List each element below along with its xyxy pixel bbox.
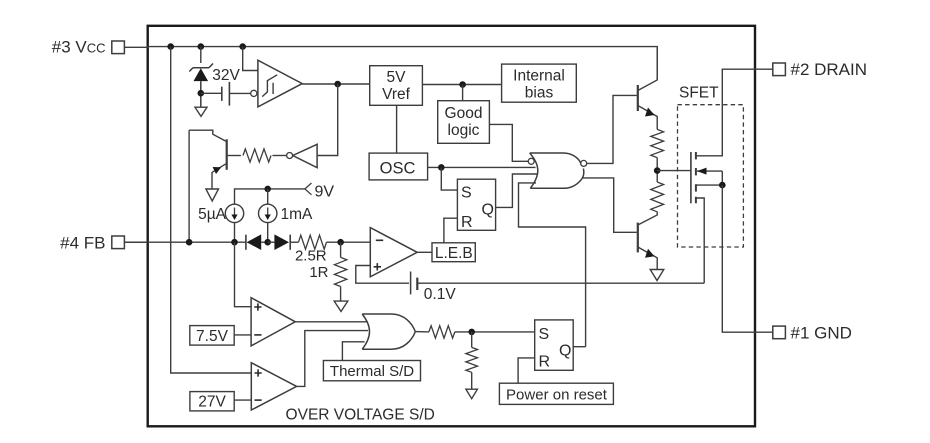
wire plus input to battery — [356, 266, 409, 284]
SFET sense stub — [696, 198, 704, 283]
wire latch1 R to LEB — [444, 218, 458, 243]
svg-text:bias: bias — [525, 85, 554, 102]
wire comparator to LEB — [417, 251, 432, 253]
svg-text:27V: 27V — [198, 394, 226, 411]
gate U8 OR body — [362, 314, 415, 349]
wire 27V to comp2 minus — [234, 399, 251, 401]
wire capacitor to schmitt bubble — [229, 92, 250, 94]
op-amp U7 comparator 27V — [251, 363, 296, 410]
resistor 2.5R — [290, 235, 326, 249]
wire VCC to schmitt upper input — [243, 47, 258, 71]
node VCC-zener tap — [198, 43, 205, 50]
schmitt trigger U1 triangle — [258, 60, 302, 107]
label Good logic — [445, 105, 483, 139]
schmitt inverting bubble — [251, 90, 257, 96]
latch U9 pin Q — [559, 343, 571, 360]
ground S-path resistor — [466, 389, 478, 399]
svg-text:Power on reset: Power on reset — [506, 386, 608, 403]
op-amp U6 comparator 7.5V — [251, 298, 295, 346]
svg-text:Vref: Vref — [382, 86, 411, 103]
transistor Q2 emitter with arrow — [638, 106, 657, 130]
pin #4 FB terminal — [112, 236, 125, 249]
wire comp2 out to OR gate — [297, 331, 368, 387]
svg-text:R: R — [461, 214, 473, 231]
label 1mA — [281, 206, 314, 223]
wire gate node to SFET gate — [657, 170, 690, 172]
wire NOR out to upper base — [587, 95, 637, 163]
node zener-cap junction — [198, 90, 205, 97]
label Power on reset — [506, 386, 608, 403]
label 5V Vref — [382, 69, 411, 103]
label 2.5R — [295, 248, 327, 265]
pin #3 VCC label — [52, 38, 106, 57]
current source I1 5uA — [225, 204, 243, 222]
svg-text:5V: 5V — [387, 69, 407, 86]
IC boundary box — [148, 26, 755, 427]
label 5uA — [198, 206, 227, 223]
transistor Q3 base bar — [637, 223, 639, 253]
transistor Q2 collector — [638, 47, 657, 91]
latch U9 pin R — [539, 354, 551, 371]
gate U5 output bubble — [581, 160, 587, 166]
wire FB line — [124, 241, 245, 243]
svg-text:Q: Q — [482, 202, 494, 219]
wire VCC rail — [148, 47, 658, 80]
wire VCC pin to border — [124, 46, 149, 48]
wire NOR low out to lower base — [583, 178, 637, 232]
node S-path — [468, 329, 475, 336]
block 5V Vref — [370, 66, 423, 106]
resistor 1R — [334, 242, 346, 286]
wire OR out to latch2 S — [415, 331, 429, 333]
latch U4 pin Q — [482, 202, 494, 219]
latch U9 SR box — [535, 320, 574, 370]
svg-text:5µA: 5µA — [198, 206, 227, 223]
wire latch1 Q to NOR — [496, 174, 538, 207]
diode D2 (pointing right) — [268, 234, 291, 250]
inverter U2 (left-pointing) — [293, 144, 317, 167]
label SFET — [679, 85, 719, 102]
battery 0.1V — [411, 272, 418, 295]
zener diode 32V — [189, 64, 213, 108]
resistor drive R2 — [651, 182, 664, 212]
latch U4 pin S — [461, 185, 472, 202]
node OSC output — [438, 164, 445, 171]
svg-text:Thermal S/D: Thermal S/D — [330, 363, 414, 380]
SFET dashed box — [678, 105, 744, 247]
svg-text:Q: Q — [559, 343, 571, 360]
label 7.5V — [196, 328, 229, 345]
wire resistor to Q1 base — [228, 155, 241, 157]
label 32V — [212, 67, 240, 84]
diode D1 (pointing left) — [246, 234, 268, 250]
svg-text:S: S — [539, 326, 550, 343]
SFET body diode arrow — [697, 168, 722, 186]
label Internal bias — [513, 68, 565, 102]
wire 2.5R to comparator — [327, 241, 371, 243]
wire latch2 Q feedback into NOR — [519, 183, 586, 347]
wire latch2 Q out — [573, 346, 585, 348]
schmitt hysteresis glyph — [262, 75, 277, 97]
current source I2 1mA — [259, 189, 277, 223]
node gate drive — [654, 167, 661, 174]
resistor to ground (S path) — [466, 332, 478, 389]
wire 1R to ground — [340, 287, 342, 302]
resistor drive R1 — [651, 129, 664, 157]
block Thermal S/D — [323, 361, 420, 381]
svg-text:R: R — [539, 354, 551, 371]
wire schmitt output down to inverter — [317, 84, 338, 156]
wire 9V rail — [235, 189, 305, 205]
gate U5 NOR body — [530, 153, 584, 188]
svg-text:Good: Good — [445, 105, 483, 122]
svg-text:#2 DRAIN: #2 DRAIN — [791, 60, 868, 79]
latch U4 pin R — [461, 214, 473, 231]
wire zener to capacitor — [201, 92, 222, 94]
label 0.1V — [424, 286, 457, 303]
svg-text:#4 FB: #4 FB — [60, 233, 105, 252]
svg-text:OVER VOLTAGE S/D: OVER VOLTAGE S/D — [286, 407, 435, 424]
wire Vref to OSC — [396, 105, 398, 153]
node schmitt output — [334, 81, 341, 88]
wire OSC to NOR — [428, 166, 536, 168]
wire VCC to 27V comparator — [171, 47, 252, 373]
block OSC — [369, 153, 428, 180]
inverter output bubble — [287, 153, 293, 159]
svg-text:OSC: OSC — [380, 159, 416, 177]
resistor S-path — [429, 326, 455, 338]
wire SFET source to GND pin — [722, 185, 773, 332]
svg-text:0.1V: 0.1V — [424, 286, 457, 303]
svg-text:32V: 32V — [212, 67, 240, 84]
svg-text:9V: 9V — [315, 183, 335, 200]
node FB diodes junction — [264, 239, 271, 246]
node SFET source — [719, 182, 726, 189]
node Vref-GoodLogic — [459, 81, 466, 88]
transistor Q1 emitter with arrow — [212, 163, 227, 189]
SFET drain stub — [696, 69, 773, 156]
wire inverter to base resistor — [272, 155, 286, 157]
gate U5 input bubble — [528, 158, 534, 164]
pin #1 GND label — [791, 323, 852, 342]
wire Q1 collector to FB — [188, 130, 190, 242]
SFET source stub — [696, 184, 722, 186]
label OSC — [380, 159, 416, 177]
wire R1 to gate node — [656, 158, 658, 182]
transistor Q2 base bar — [637, 85, 639, 111]
label Thermal S/D — [330, 363, 414, 380]
block 27V ref — [190, 392, 234, 411]
ground Q3 emitter — [650, 270, 664, 281]
wire schmitt output to 5V Vref — [302, 83, 370, 85]
svg-text:2.5R: 2.5R — [295, 248, 327, 265]
svg-text:#3 VCC: #3 VCC — [52, 38, 106, 57]
label L.E.B — [435, 245, 473, 262]
svg-text:Internal: Internal — [513, 68, 565, 85]
svg-text:#1 GND: #1 GND — [791, 323, 852, 342]
SFET channel segments — [695, 152, 697, 203]
op-amp U3 minus sign — [376, 239, 383, 241]
wire VCC to zener — [200, 47, 202, 63]
wire Good logic to NOR input — [489, 124, 528, 161]
block L.E.B — [432, 243, 475, 262]
op-amp U6 minus sign — [254, 334, 261, 336]
op-amp U3 plus sign — [374, 263, 381, 270]
pin #1 GND terminal — [773, 326, 786, 339]
block Good logic — [438, 101, 490, 144]
label 9V — [315, 183, 335, 200]
SFET gate bar — [690, 152, 692, 203]
wire OSC to latch1 S — [441, 167, 457, 190]
wire 5uA to FB — [234, 223, 236, 243]
label OVER VOLTAGE S/D — [286, 407, 435, 424]
node 9V-1mA junction — [264, 186, 271, 193]
block Power on reset — [499, 383, 613, 404]
svg-text:1R: 1R — [309, 264, 328, 281]
svg-text:1mA: 1mA — [281, 206, 314, 223]
svg-text:SFET: SFET — [679, 85, 719, 102]
op-amp U7 plus sign — [255, 369, 262, 376]
ground zener — [195, 107, 207, 116]
svg-text:L.E.B: L.E.B — [435, 245, 473, 262]
label 1R — [309, 264, 328, 281]
wire Vref to Internal bias — [422, 84, 501, 86]
transistor Q1 base bar — [226, 139, 228, 170]
wire 1mA to FB — [267, 223, 269, 243]
node VCC-OVP tap — [167, 43, 174, 50]
wire resistor to latch2 — [455, 331, 535, 333]
transistor Q1 collector — [189, 130, 227, 141]
latch U4 SR box — [457, 179, 495, 230]
svg-text:S: S — [461, 185, 472, 202]
wire 7.5V to comp1 minus — [234, 334, 251, 336]
latch U9 pin S — [539, 326, 550, 343]
capacitor UVLO plates — [222, 82, 230, 106]
pin #4 FB label — [60, 233, 105, 252]
transistor Q3 collector — [638, 212, 657, 225]
wire to Good logic — [462, 85, 464, 101]
wire FB pin to border — [124, 241, 149, 243]
label 27V — [198, 394, 226, 411]
block 7.5V ref — [190, 326, 234, 346]
pin #2 DRAIN label — [791, 60, 868, 79]
node FB-Q1 — [186, 239, 193, 246]
wire POR to latch2 R — [518, 358, 535, 383]
ground 1R — [334, 301, 348, 311]
svg-text:7.5V: 7.5V — [196, 328, 229, 345]
node FB-1R — [337, 239, 344, 246]
wire comp1 out to OR gate — [295, 321, 366, 323]
block Internal bias — [502, 64, 577, 102]
svg-text:logic: logic — [448, 122, 480, 139]
op-amp U7 minus sign — [255, 399, 262, 401]
wire FB to comp1 plus — [235, 242, 252, 307]
terminal 9V chevron — [305, 183, 312, 195]
wire 0.1V sense line — [417, 282, 704, 284]
op-amp U3 PWM comparator — [370, 228, 417, 277]
pin #2 DRAIN terminal — [773, 63, 786, 76]
ground Q1 emitter — [206, 189, 219, 201]
node FB-5uA — [231, 239, 238, 246]
wire Thermal to OR gate — [342, 342, 364, 361]
transistor Q3 emitter with arrow — [638, 247, 657, 270]
resistor base R — [243, 149, 271, 162]
op-amp U6 plus sign — [254, 303, 261, 310]
pin #3 VCC terminal — [112, 41, 125, 54]
node VCC-UVLO tap — [239, 43, 246, 50]
